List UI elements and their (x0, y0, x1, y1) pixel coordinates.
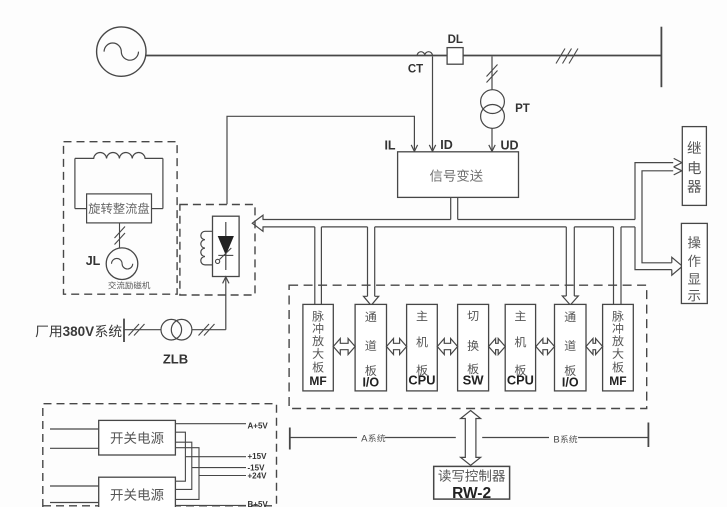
svg-text:B+5V: B+5V (248, 500, 269, 507)
svg-text:CT: CT (408, 64, 423, 76)
svg-text:SW: SW (463, 373, 485, 388)
svg-text:A: A (361, 434, 368, 445)
svg-text:ZLB: ZLB (163, 352, 188, 367)
svg-text:380V: 380V (63, 324, 95, 339)
svg-text:MF: MF (609, 374, 626, 388)
svg-text:A+5V: A+5V (248, 421, 269, 430)
svg-text:MF: MF (309, 374, 326, 388)
svg-text:DL: DL (448, 34, 463, 46)
svg-text:CPU: CPU (408, 373, 435, 388)
svg-text:PT: PT (515, 103, 530, 115)
svg-text:JL: JL (86, 254, 101, 268)
svg-text:I/O: I/O (362, 375, 379, 389)
svg-text:ID: ID (440, 138, 453, 152)
svg-text:CPU: CPU (507, 373, 534, 388)
svg-text:I/O: I/O (562, 375, 579, 389)
svg-text:B: B (553, 435, 559, 446)
svg-text:+15V: +15V (248, 452, 268, 461)
svg-text:IL: IL (384, 139, 395, 153)
svg-text:UD: UD (500, 139, 518, 153)
svg-text:RW-2: RW-2 (452, 485, 491, 502)
svg-text:+24V: +24V (248, 471, 268, 480)
